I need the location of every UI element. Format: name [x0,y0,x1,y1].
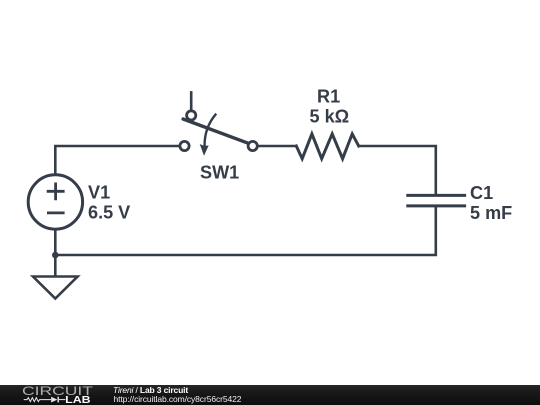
CircuitLab logo [0,385,100,405]
wire V1 bottom lead to ground [54,229,57,276]
svg-text:SW1: SW1 [200,163,239,183]
SW1 left terminal [180,141,189,150]
logo diode bar [58,397,59,403]
footer bar [0,385,540,405]
node junction at V1/ground/rail [52,252,59,259]
svg-text:R1: R1 [317,86,340,106]
wire R1 to C1 [359,146,436,194]
svg-text:5 kΩ: 5 kΩ [310,107,350,127]
attribution line 2 [114,394,242,404]
wire SW1 right terminal to R1 [257,145,296,148]
SW1 right terminal [248,141,257,150]
SW1 actuation arc [205,114,217,147]
wire SW1 top stub [190,92,193,110]
logo diode triangle [51,397,57,403]
V1 minus terminal mark [47,211,65,214]
svg-text:V1: V1 [88,183,110,203]
V1 plus terminal mark [47,183,65,201]
wire C1 to bottom rail and node [55,207,436,255]
wire V1 top to SW1 left terminal [55,146,180,175]
svg-text:5 mF: 5 mF [470,203,512,223]
attribution line 1 [113,385,188,395]
V1 body circle [28,175,82,229]
SW1 top terminal [187,111,196,120]
resistor R1 [296,134,358,159]
SW1 lever [183,119,248,143]
ground [33,277,78,299]
logo resistor squiggle and wire [24,398,66,402]
capacitor C1 [408,195,465,206]
voltage source V1 [28,175,82,229]
svg-text:LAB: LAB [65,395,90,405]
svg-text:6.5 V: 6.5 V [88,203,130,223]
SW1 actuation arrowhead [200,144,209,156]
switch SW1 [180,111,257,156]
svg-text:C1: C1 [470,183,493,203]
